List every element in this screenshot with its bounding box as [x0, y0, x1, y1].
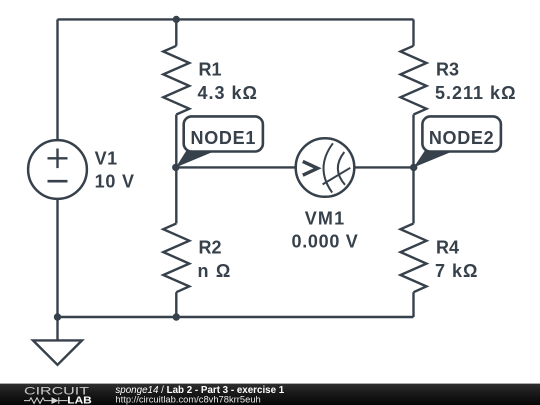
wire top rail: [58, 18, 414, 20]
svg-text:http://circuitlab.com/c8vh78kr: http://circuitlab.com/c8vh78krr5euh: [115, 394, 260, 405]
resistor R1: [163, 46, 189, 115]
svg-text:n Ω: n Ω: [198, 261, 232, 281]
junction dot bottom middle: [173, 313, 180, 320]
NODE2 flag tail: [414, 150, 455, 167]
wire middle column between R1 and NODE1: [175, 115, 177, 168]
wire bottom rail: [58, 316, 414, 318]
wire right column below R4: [412, 292, 414, 317]
resistor R4: [401, 224, 427, 293]
wire right column NODE2 to R4: [412, 167, 414, 223]
wire right column top lead: [412, 19, 414, 45]
resistor R2: [163, 224, 189, 293]
svg-text:R1: R1: [199, 60, 222, 80]
wire NODE1 to voltmeter: [176, 166, 295, 168]
ground stem: [56, 317, 58, 340]
svg-text:4.3 kΩ: 4.3 kΩ: [198, 83, 258, 103]
svg-text:R2: R2: [199, 238, 222, 258]
junction dot bottom left: [54, 313, 61, 320]
svg-text:VM1: VM1: [305, 209, 346, 229]
wire left column upper: [56, 19, 58, 140]
wire left column lower: [56, 199, 58, 317]
ground: [33, 340, 82, 364]
NODE2 box: [422, 116, 501, 151]
svg-text:R4: R4: [436, 238, 459, 258]
svg-text:V1: V1: [95, 149, 118, 169]
svg-text:10 V: 10 V: [95, 172, 135, 192]
CircuitLab logo wire-resistor-diode glyph: [24, 397, 68, 404]
svg-text:NODE2: NODE2: [429, 128, 495, 148]
wire middle column NODE1 to R2: [175, 167, 177, 223]
resistor R3: [401, 46, 427, 115]
svg-text:R3: R3: [436, 60, 459, 80]
svg-text:7 kΩ: 7 kΩ: [435, 261, 478, 281]
svg-text:0.000 V: 0.000 V: [292, 232, 359, 252]
NODE1 flag tail: [176, 150, 217, 167]
svg-text:5.211 kΩ: 5.211 kΩ: [435, 83, 517, 103]
wire right column between R3 and NODE2: [412, 115, 414, 168]
wire voltmeter to NODE2: [354, 166, 413, 168]
voltmeter VM1: [296, 138, 355, 197]
wire middle column below R2: [175, 292, 177, 317]
node A (NODE1 junction): [172, 164, 179, 171]
svg-text:NODE1: NODE1: [191, 128, 257, 148]
junction dot top middle: [173, 16, 180, 23]
voltage source V1: [28, 140, 87, 199]
NODE1 box: [184, 116, 263, 151]
wire middle column top lead: [175, 19, 177, 45]
node B (NODE2 junction): [410, 164, 417, 171]
svg-text:LAB: LAB: [67, 395, 92, 405]
